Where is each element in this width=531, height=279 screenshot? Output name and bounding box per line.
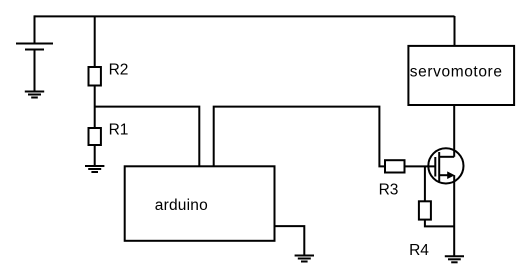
svg-text:R2: R2 bbox=[109, 62, 129, 79]
svg-text:R1: R1 bbox=[109, 122, 129, 139]
svg-text:servomotore: servomotore bbox=[410, 63, 503, 80]
svg-text:arduino: arduino bbox=[155, 197, 208, 214]
svg-text:R4: R4 bbox=[409, 242, 429, 259]
svg-text:R3: R3 bbox=[379, 182, 399, 199]
